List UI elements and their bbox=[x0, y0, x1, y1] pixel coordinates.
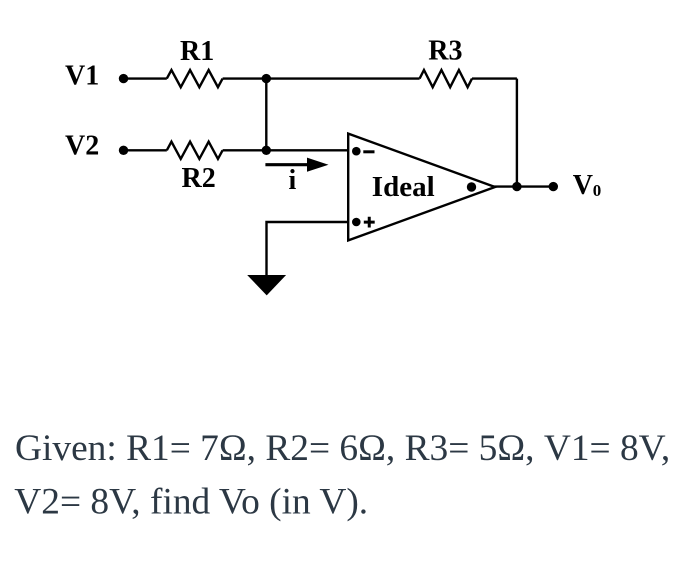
svg-text:Ideal: Ideal bbox=[372, 171, 435, 203]
svg-text:V2= 8V, find Vo (in V).: V2= 8V, find Vo (in V). bbox=[14, 482, 368, 523]
svg-text:0: 0 bbox=[593, 181, 602, 200]
svg-text:R2: R2 bbox=[182, 163, 216, 194]
svg-text:Given: R1= 7Ω, R2= 6Ω, R3= 5Ω,: Given: R1= 7Ω, R2= 6Ω, R3= 5Ω, V1= 8V, bbox=[15, 428, 670, 469]
svg-text:R3: R3 bbox=[428, 36, 462, 67]
svg-text:V2: V2 bbox=[65, 130, 99, 161]
svg-text:V: V bbox=[573, 170, 593, 201]
svg-text:V1: V1 bbox=[65, 61, 99, 92]
svg-text:R1: R1 bbox=[180, 36, 214, 67]
svg-text:i: i bbox=[289, 165, 297, 196]
